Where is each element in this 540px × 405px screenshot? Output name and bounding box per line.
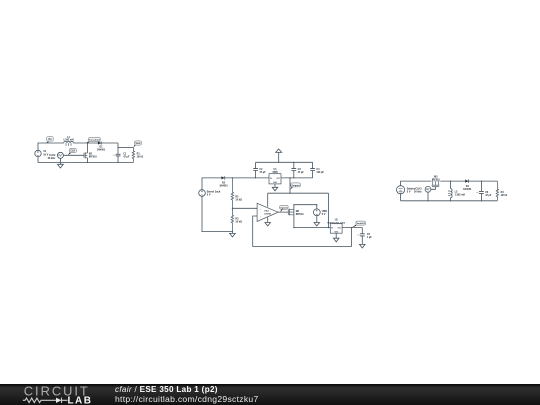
svg-text:100 Ω: 100 Ω <box>501 194 508 197</box>
svg-text:5 V: 5 V <box>322 213 326 216</box>
wire feedback loop <box>253 216 352 246</box>
svg-text:1N4001: 1N4001 <box>463 188 472 191</box>
transistor M2 <box>288 209 304 216</box>
ground opamp <box>265 223 271 227</box>
svg-text:1 µF: 1 µF <box>367 236 372 239</box>
svg-text:IRF510: IRF510 <box>89 156 98 159</box>
wire opamp ground pin <box>267 217 269 222</box>
clock source V5 <box>414 186 431 193</box>
svg-text:7805: 7805 <box>272 171 278 174</box>
wire M2 drain/source vertical <box>293 205 295 228</box>
capacitor C5 <box>357 228 372 245</box>
svg-text:47 µF: 47 µF <box>259 171 266 174</box>
node M1 drain <box>87 142 88 143</box>
node rail to reg <box>289 193 290 194</box>
ground U2 <box>333 238 339 242</box>
inductor L3 <box>448 181 465 201</box>
wire U2 ground pin <box>335 233 337 238</box>
svg-text:47 µF: 47 µF <box>485 194 492 197</box>
node C3 bottom <box>293 177 294 178</box>
node M2 drain <box>293 204 294 205</box>
svg-text:OA1: OA1 <box>264 209 269 212</box>
node cap C1 bottom <box>117 162 118 163</box>
regulator U1 7805 <box>269 168 281 184</box>
node reg output branch <box>289 177 290 178</box>
wire opamp power pin <box>267 193 269 207</box>
svg-text:1.592 mH: 1.592 mH <box>63 139 74 142</box>
capacitor C3 <box>291 162 304 178</box>
wire USB bottom <box>316 216 318 223</box>
wire M2 drain to USB top <box>294 204 317 206</box>
wire cap C1 bottom <box>117 156 119 163</box>
flag Vregout <box>290 183 300 190</box>
ground C5 <box>360 244 366 248</box>
wire bottom rail circuit1 <box>38 157 133 163</box>
svg-text:1N4001: 1N4001 <box>97 148 106 151</box>
capacitor C1 <box>113 153 130 159</box>
wire clock to gate <box>63 154 84 156</box>
flag Vout3v3 <box>352 221 366 227</box>
svg-text:10 kΩ: 10 kΩ <box>235 221 242 224</box>
svg-text:50 kHz: 50 kHz <box>414 190 422 193</box>
wire tee to R1 <box>118 147 133 149</box>
voltage source V3 barrel jack <box>199 190 221 197</box>
wire corner down to cap C1 <box>117 143 119 154</box>
svg-text:LAB: LAB <box>68 395 93 405</box>
svg-text:5 V: 5 V <box>207 194 211 197</box>
svg-text:100 Ω: 100 Ω <box>137 155 144 158</box>
svg-text:Vout3v3: Vout3v3 <box>357 222 366 225</box>
svg-text:Vmosdrain: Vmosdrain <box>89 140 101 142</box>
regulator U2 <box>327 220 345 234</box>
resistor R4 <box>496 181 507 201</box>
svg-text:Vin: Vin <box>48 139 52 141</box>
wire bottom rail circuit3 <box>401 200 498 202</box>
wire clock bottom <box>427 192 429 201</box>
node divider top <box>232 177 233 178</box>
flag Vmosdrain <box>86 137 101 143</box>
wire diode to U1 input <box>225 177 269 179</box>
wire opamp power rail <box>268 192 329 194</box>
capacitor C2 <box>253 162 266 178</box>
wire battery bottom <box>400 194 402 201</box>
svg-text:IRF510: IRF510 <box>296 213 305 216</box>
CircuitLab logo <box>0 384 110 405</box>
wire opamp output <box>278 211 288 213</box>
svg-text:1N4001: 1N4001 <box>219 184 228 187</box>
flag Vgate2 <box>280 205 289 212</box>
wire clock bottom <box>59 158 61 162</box>
node divider mid <box>232 208 233 209</box>
node M2 source <box>293 227 294 228</box>
voltage source V1 <box>35 150 49 157</box>
battery source V4 <box>397 186 417 194</box>
svg-text:47 µF: 47 µF <box>123 156 130 159</box>
node U2 input <box>328 227 329 228</box>
svg-text:Vregout: Vregout <box>291 184 299 187</box>
node M1 source <box>87 162 88 163</box>
ground divider <box>230 232 236 237</box>
node C3 top <box>293 162 294 163</box>
wire divider to opamp plus <box>232 207 257 209</box>
wire U1 ground pin <box>274 184 276 187</box>
resistor R2 <box>231 178 242 208</box>
svg-text:50 kHz: 50 kHz <box>48 157 56 160</box>
wire U1 output <box>281 177 313 179</box>
diode D1 <box>97 141 106 151</box>
node power stem <box>278 162 279 163</box>
diode D2 <box>219 176 228 187</box>
transistor M3 <box>431 176 441 190</box>
resistor R1 <box>132 148 143 163</box>
node divider bottom <box>232 231 233 232</box>
transistor M1 <box>84 152 97 158</box>
svg-text:NCP1117DL 3302: NCP1117DL 3302 <box>327 222 345 224</box>
node USB top <box>316 204 317 205</box>
svg-text:IRF510: IRF510 <box>432 179 441 182</box>
flag Vin <box>46 137 53 143</box>
wire M1 drain up <box>86 143 88 153</box>
flag CLK <box>68 148 77 155</box>
wire V1 top to inductor <box>38 143 64 150</box>
svg-text:47 µF: 47 µF <box>298 171 305 174</box>
node U2 output/feedback <box>351 227 352 228</box>
wire battery top rail <box>401 181 498 186</box>
diode D4 <box>463 180 472 191</box>
flag Vout <box>133 141 141 148</box>
ground U1 <box>272 187 278 191</box>
footer title <box>115 385 218 394</box>
footer bar <box>0 384 540 405</box>
wire rail down to U2 input <box>328 193 330 227</box>
footer url <box>115 395 259 404</box>
svg-text:100 µF: 100 µF <box>316 171 324 174</box>
node tee C1/R1 <box>117 147 118 148</box>
ground circuit1 <box>58 162 64 168</box>
inductor L1 <box>63 136 74 146</box>
svg-text:Vgate2: Vgate2 <box>280 206 288 209</box>
resistor R3 <box>231 208 242 231</box>
capacitor C4 <box>310 162 324 178</box>
svg-text:LM741: LM741 <box>264 212 272 215</box>
svg-text:10 kΩ: 10 kΩ <box>235 198 242 201</box>
node clock/ground junction <box>60 162 61 163</box>
wire inductor to corner <box>73 142 118 144</box>
wire source top to diode <box>202 178 221 190</box>
svg-text:5 V: 5 V <box>407 190 411 193</box>
wire top rail circuit2 <box>256 161 313 163</box>
svg-text:CLK: CLK <box>70 151 75 153</box>
node C2 bottom <box>255 177 256 178</box>
wire source bottom rail <box>202 196 232 231</box>
wire reg output down to opamp rail <box>289 178 291 193</box>
node inductor top <box>450 181 451 182</box>
ground USB <box>314 223 320 227</box>
svg-text:1.592 mH: 1.592 mH <box>455 194 466 197</box>
wire M2 source to U2 input <box>294 227 330 229</box>
voltage source USB <box>313 205 327 216</box>
node clock ground <box>427 200 428 201</box>
op-amp OA1 <box>257 203 278 221</box>
capacitor C6 <box>476 181 492 201</box>
node C6 top <box>481 181 482 182</box>
node C6 bottom <box>481 200 482 201</box>
svg-text:Vout: Vout <box>135 142 140 145</box>
clock source V2 <box>48 152 64 160</box>
node inductor bottom <box>450 200 451 201</box>
wire U2 output <box>342 227 362 229</box>
wire M1 source down <box>86 158 88 163</box>
power flag arrow <box>276 149 282 162</box>
